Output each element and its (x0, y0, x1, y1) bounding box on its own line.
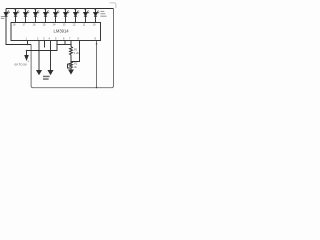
border corner fragment top right (110, 3, 116, 8)
LED D8 (74, 9, 80, 23)
label LED NO.1 (1, 15, 5, 18)
LED D7 (64, 9, 70, 23)
wire pin 5/6 to pin 7 node (57, 44, 71, 46)
resistor R2 trimmer (70, 62, 73, 71)
junction dots rail (15, 8, 17, 10)
pin 7 stub (70, 41, 72, 47)
pin 2 stub wire to ground (38, 41, 40, 71)
junction dot pin1 wire (27, 44, 28, 45)
label LED supply voltage (101, 10, 105, 13)
resistor R1 1.2k (70, 47, 73, 62)
LED D10 (94, 9, 100, 23)
wire pin 9 down to bottom loop (96, 41, 98, 88)
label signal ground (43, 76, 50, 78)
pin 1 stub (27, 41, 29, 45)
signal input arrow (25, 56, 28, 60)
svg-text:1.2k: 1.2k (74, 51, 80, 55)
junction dot pin 9 stub (96, 43, 97, 44)
svg-text:LM3914: LM3914 (54, 29, 70, 34)
pin 5 stub and signal input wire (27, 41, 58, 56)
wire V+ loop right side down to bottom (31, 9, 113, 88)
ground R2 (69, 70, 73, 74)
wire LED D1 cathode to pin 1 (6, 16, 31, 44)
junction dot R1 R2 node (70, 61, 71, 62)
LED D6 (54, 9, 60, 23)
pin 6 stub (64, 41, 66, 45)
ground pin 2 (37, 71, 41, 75)
svg-text:R2: R2 (74, 62, 78, 66)
pin 3 stub (44, 41, 46, 48)
LED D1 (4, 9, 10, 17)
pin 4 stub wire to ground (50, 41, 52, 71)
junction dot pin7 node (70, 44, 71, 45)
wire top LED supply rail (6, 8, 114, 10)
LED D3 (24, 9, 30, 23)
junction dot pin5 node (56, 44, 57, 45)
svg-text:3k: 3k (74, 65, 77, 69)
LED D5 (44, 9, 50, 23)
LED D2 (14, 9, 20, 23)
pin 8 stub wire to R1/R2 node (71, 41, 80, 62)
svg-text:0V TO 5V: 0V TO 5V (15, 62, 27, 66)
ground pin 4 (48, 71, 52, 75)
LED D4 (34, 9, 40, 23)
junction dot mode loop (96, 87, 97, 88)
junction dot R2 wiper (70, 63, 71, 64)
trimmer R2 wiper loop (68, 64, 72, 68)
junction dot input corner (26, 50, 27, 51)
svg-text:R1: R1 (74, 48, 78, 52)
IC U1 LM3914 body (11, 23, 101, 41)
LED D9 (84, 9, 90, 23)
